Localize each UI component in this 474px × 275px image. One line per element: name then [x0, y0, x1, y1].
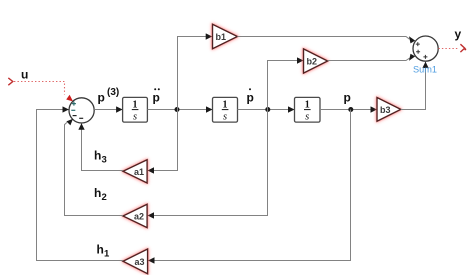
- wire integrator1 to integrator2: [148, 109, 213, 111]
- wire integrator3 to gain b3: [320, 109, 377, 111]
- label p-dot: [247, 88, 254, 104]
- wire a3 to Sum left: [37, 110, 124, 261]
- integrator block 1/s (third): [295, 97, 321, 122]
- wire u to Sum (red dashed unconnected): [14, 82, 73, 102]
- svg-text:1: 1: [305, 100, 310, 111]
- label p(3): [98, 87, 120, 104]
- svg-text:p: p: [344, 91, 351, 105]
- svg-text:s: s: [223, 112, 227, 123]
- label h1: [97, 243, 111, 260]
- wire b1 to Sum1: [237, 37, 409, 40]
- wire a2 to Sum lower-left: [65, 122, 124, 215]
- svg-text:Sum1: Sum1: [413, 64, 437, 74]
- svg-text:1: 1: [104, 249, 110, 260]
- svg-text:3: 3: [102, 155, 107, 166]
- input port u: [8, 78, 13, 85]
- svg-text:a1: a1: [134, 167, 144, 177]
- svg-text:a3: a3: [135, 257, 145, 267]
- sum block Sum: [69, 98, 94, 123]
- svg-text:1: 1: [223, 100, 228, 111]
- wire junction3 down to gain a3: [148, 110, 350, 261]
- svg-text:2: 2: [102, 192, 107, 203]
- sum block Sum1: [413, 36, 438, 61]
- label h3: [94, 149, 107, 166]
- svg-text:p: p: [247, 91, 254, 105]
- svg-text:b1: b1: [216, 32, 227, 42]
- node junction2: [265, 107, 270, 112]
- integrator block 1/s (second): [213, 97, 238, 122]
- label p-double-dot: [153, 88, 160, 104]
- wire Sum to integrator1: [94, 109, 122, 111]
- wire a1 to Sum bottom: [82, 124, 124, 171]
- gain b1: [213, 24, 238, 49]
- svg-text:y: y: [455, 27, 462, 41]
- wire junction2 up to gain b2: [268, 61, 304, 110]
- svg-text:1: 1: [133, 100, 138, 111]
- svg-text:h: h: [94, 186, 101, 200]
- integrator block 1/s (first): [123, 97, 148, 122]
- svg-text:h: h: [97, 243, 104, 257]
- gain a1: [123, 160, 147, 183]
- wire b3 to Sum1: [401, 62, 426, 110]
- node junction3: [348, 107, 353, 112]
- gain b2: [304, 49, 328, 73]
- node junction1: [175, 107, 180, 112]
- svg-text:u: u: [21, 68, 28, 82]
- wire b2 to Sum1: [328, 58, 410, 60]
- wire junction1 up to gain b1: [178, 37, 212, 110]
- svg-text:h: h: [94, 149, 101, 163]
- svg-text:s: s: [133, 112, 137, 123]
- wire integrator2 to integrator3: [238, 109, 295, 111]
- gain a3: [123, 249, 148, 274]
- wire junction1 down to gain a1: [148, 110, 178, 171]
- svg-text:b3: b3: [380, 105, 391, 115]
- svg-text:a2: a2: [134, 212, 144, 222]
- wire Sum1 to output port (red dashed): [438, 48, 459, 50]
- svg-text:p: p: [153, 91, 160, 105]
- wire junction2 down to gain a2: [148, 110, 268, 216]
- svg-text:p: p: [98, 91, 105, 105]
- gain b3: [377, 98, 401, 122]
- label h2: [94, 186, 107, 203]
- gain a2: [123, 204, 147, 227]
- svg-text:(3): (3): [107, 87, 119, 98]
- output port y: [460, 44, 466, 52]
- svg-text:s: s: [305, 112, 309, 123]
- svg-text:b2: b2: [307, 57, 318, 67]
